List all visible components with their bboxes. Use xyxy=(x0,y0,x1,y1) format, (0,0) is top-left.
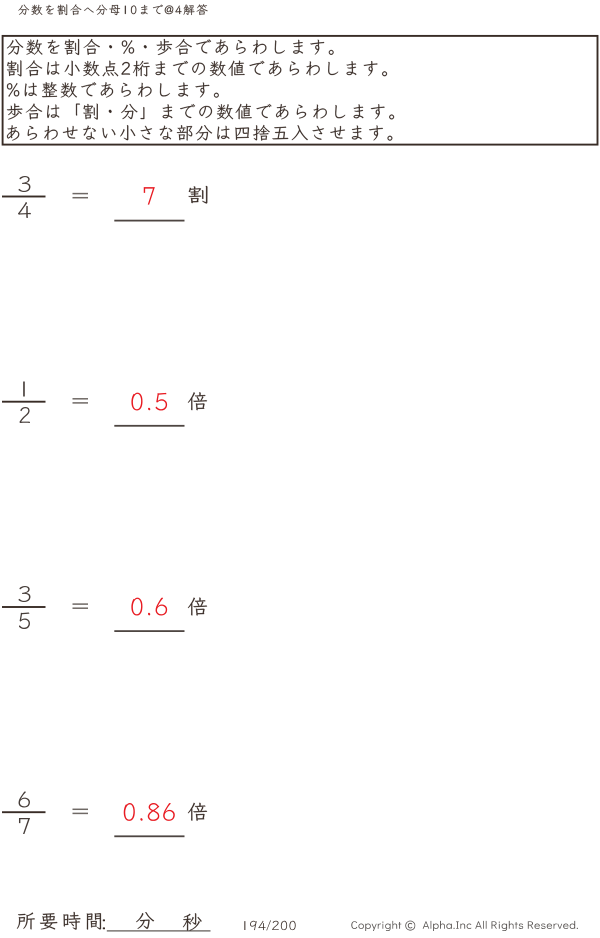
problem 2 numerator 1 xyxy=(23,382,25,397)
problem 4 fraction bar xyxy=(2,811,46,813)
problem 1 numerator 3 xyxy=(19,176,31,192)
problem 1 equals sign xyxy=(73,193,89,199)
problem 3 fraction bar xyxy=(2,606,46,608)
footer 秒 (seconds) xyxy=(183,913,202,930)
problem 2 unit 倍 xyxy=(188,392,207,410)
problem 3 numerator 3 xyxy=(19,586,31,602)
problem 4 equals sign xyxy=(73,809,89,815)
footer copyright word 1 xyxy=(351,921,401,931)
footer colon xyxy=(103,919,105,929)
problem 3 answer underline xyxy=(114,630,184,632)
problem 4 unit 倍 xyxy=(188,803,207,821)
problem 3 denominator 5 xyxy=(19,612,30,629)
problem 1 unit 割 xyxy=(189,186,208,203)
instruction line 3 xyxy=(7,82,219,98)
problem 2 fraction bar xyxy=(2,401,46,403)
problem 1 denominator 4 xyxy=(18,202,31,218)
instruction box border xyxy=(3,36,598,145)
problem 3 unit 倍 xyxy=(188,598,207,616)
footer 分 (minutes) xyxy=(136,912,154,929)
problem 2 denominator 2 xyxy=(19,407,30,423)
instruction line 2 xyxy=(7,60,387,76)
footer copyright symbol xyxy=(405,921,415,931)
problem 2 answer underline xyxy=(114,425,184,427)
footer time underline xyxy=(107,930,211,931)
problem 1 fraction bar xyxy=(2,196,46,198)
problem 1 answer underline xyxy=(114,220,184,222)
problem 4 answer underline xyxy=(114,835,184,837)
problem 4 answer 0.86 (red) xyxy=(124,803,175,821)
instruction line 4 xyxy=(7,104,394,120)
problem 4 denominator 7 xyxy=(19,818,30,834)
problem 3 equals sign xyxy=(73,603,89,609)
problem 1 answer 7 (red) xyxy=(144,187,155,205)
instruction line 5 xyxy=(7,125,392,141)
problem 2 equals sign xyxy=(73,398,89,404)
footer page number 194/200 xyxy=(244,920,295,930)
header title 分数を割合へ分母10まで@4解答 xyxy=(18,4,207,15)
problem 2 answer 0.5 (red) xyxy=(131,393,167,411)
problem 3 answer 0.6 (red) xyxy=(131,598,167,616)
footer copyright text xyxy=(423,921,578,931)
footer label 所要時間 xyxy=(17,912,101,930)
problem 4 numerator 6 xyxy=(19,792,30,808)
instruction line 1 xyxy=(7,39,334,55)
